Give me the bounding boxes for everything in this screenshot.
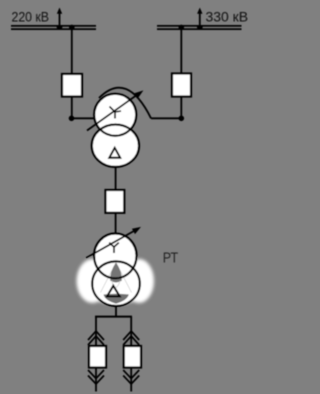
junction dot on 220 bus <box>69 25 75 31</box>
feeder left lower chevrons <box>88 370 104 384</box>
wire middle breaker to T2 <box>115 213 117 234</box>
busbar 220 kV <box>11 26 96 29</box>
breaker right feeder <box>124 346 141 368</box>
busbar 330 kV <box>157 26 242 29</box>
transformer T2 upper winding outline <box>94 234 136 279</box>
junction dot on 330 bus <box>179 25 185 31</box>
wire T1 to middle breaker <box>115 166 117 190</box>
transformer T1 winding fills <box>94 94 136 136</box>
svg-text:330 кВ: 330 кВ <box>206 9 249 25</box>
flame petal T2 <box>110 263 122 283</box>
svg-text:РТ: РТ <box>163 251 179 267</box>
breaker Q2 (330 side) <box>172 74 191 97</box>
star symbol T1 <box>110 107 122 119</box>
star symbol T2 <box>109 243 119 253</box>
feeder bar <box>95 316 132 318</box>
transformer T1 upper winding outline <box>94 94 136 136</box>
feeder left upper chevrons <box>88 331 104 345</box>
feeder right lower chevrons <box>123 370 139 384</box>
svg-text:220 кВ: 220 кВ <box>12 9 50 25</box>
feeder line left <box>95 317 97 392</box>
faint petal outline lower <box>112 281 120 288</box>
delta symbol T1 <box>109 148 120 158</box>
wire bus220 to breaker <box>71 26 73 75</box>
transformer T1 lower winding outline <box>92 125 139 167</box>
wire breaker Q1 to node A <box>71 97 73 119</box>
tap arrow T1 <box>87 90 143 130</box>
transformer T2 winding fills <box>94 234 136 279</box>
tap arrow T2 <box>86 227 141 258</box>
arc tap connection 330 side <box>99 88 151 119</box>
wire node A to transformer T1 <box>72 117 96 119</box>
breaker Q1 (220 side) <box>62 74 82 97</box>
breaker left feeder <box>89 346 106 368</box>
glow highlight around T2 <box>77 258 155 304</box>
wire breaker Q2 to node B <box>180 97 182 119</box>
junction node A <box>69 116 75 122</box>
breaker Q3 (middle) <box>106 190 125 213</box>
voltage arrow 330 <box>197 8 203 30</box>
gray segment bottom of T2 <box>104 294 129 304</box>
feeder line right <box>130 317 132 392</box>
faint delta lines T2 <box>101 263 132 293</box>
wire node B to arc <box>151 117 181 119</box>
delta symbol T2 <box>107 286 120 297</box>
feeder right upper chevrons <box>123 331 139 345</box>
wire bus330 to breaker <box>180 26 182 74</box>
wire T2 to feeder bar <box>115 306 117 317</box>
transformer T2 lower winding outline <box>92 261 140 306</box>
junction node B <box>179 116 185 122</box>
voltage arrow 220 <box>57 8 63 30</box>
